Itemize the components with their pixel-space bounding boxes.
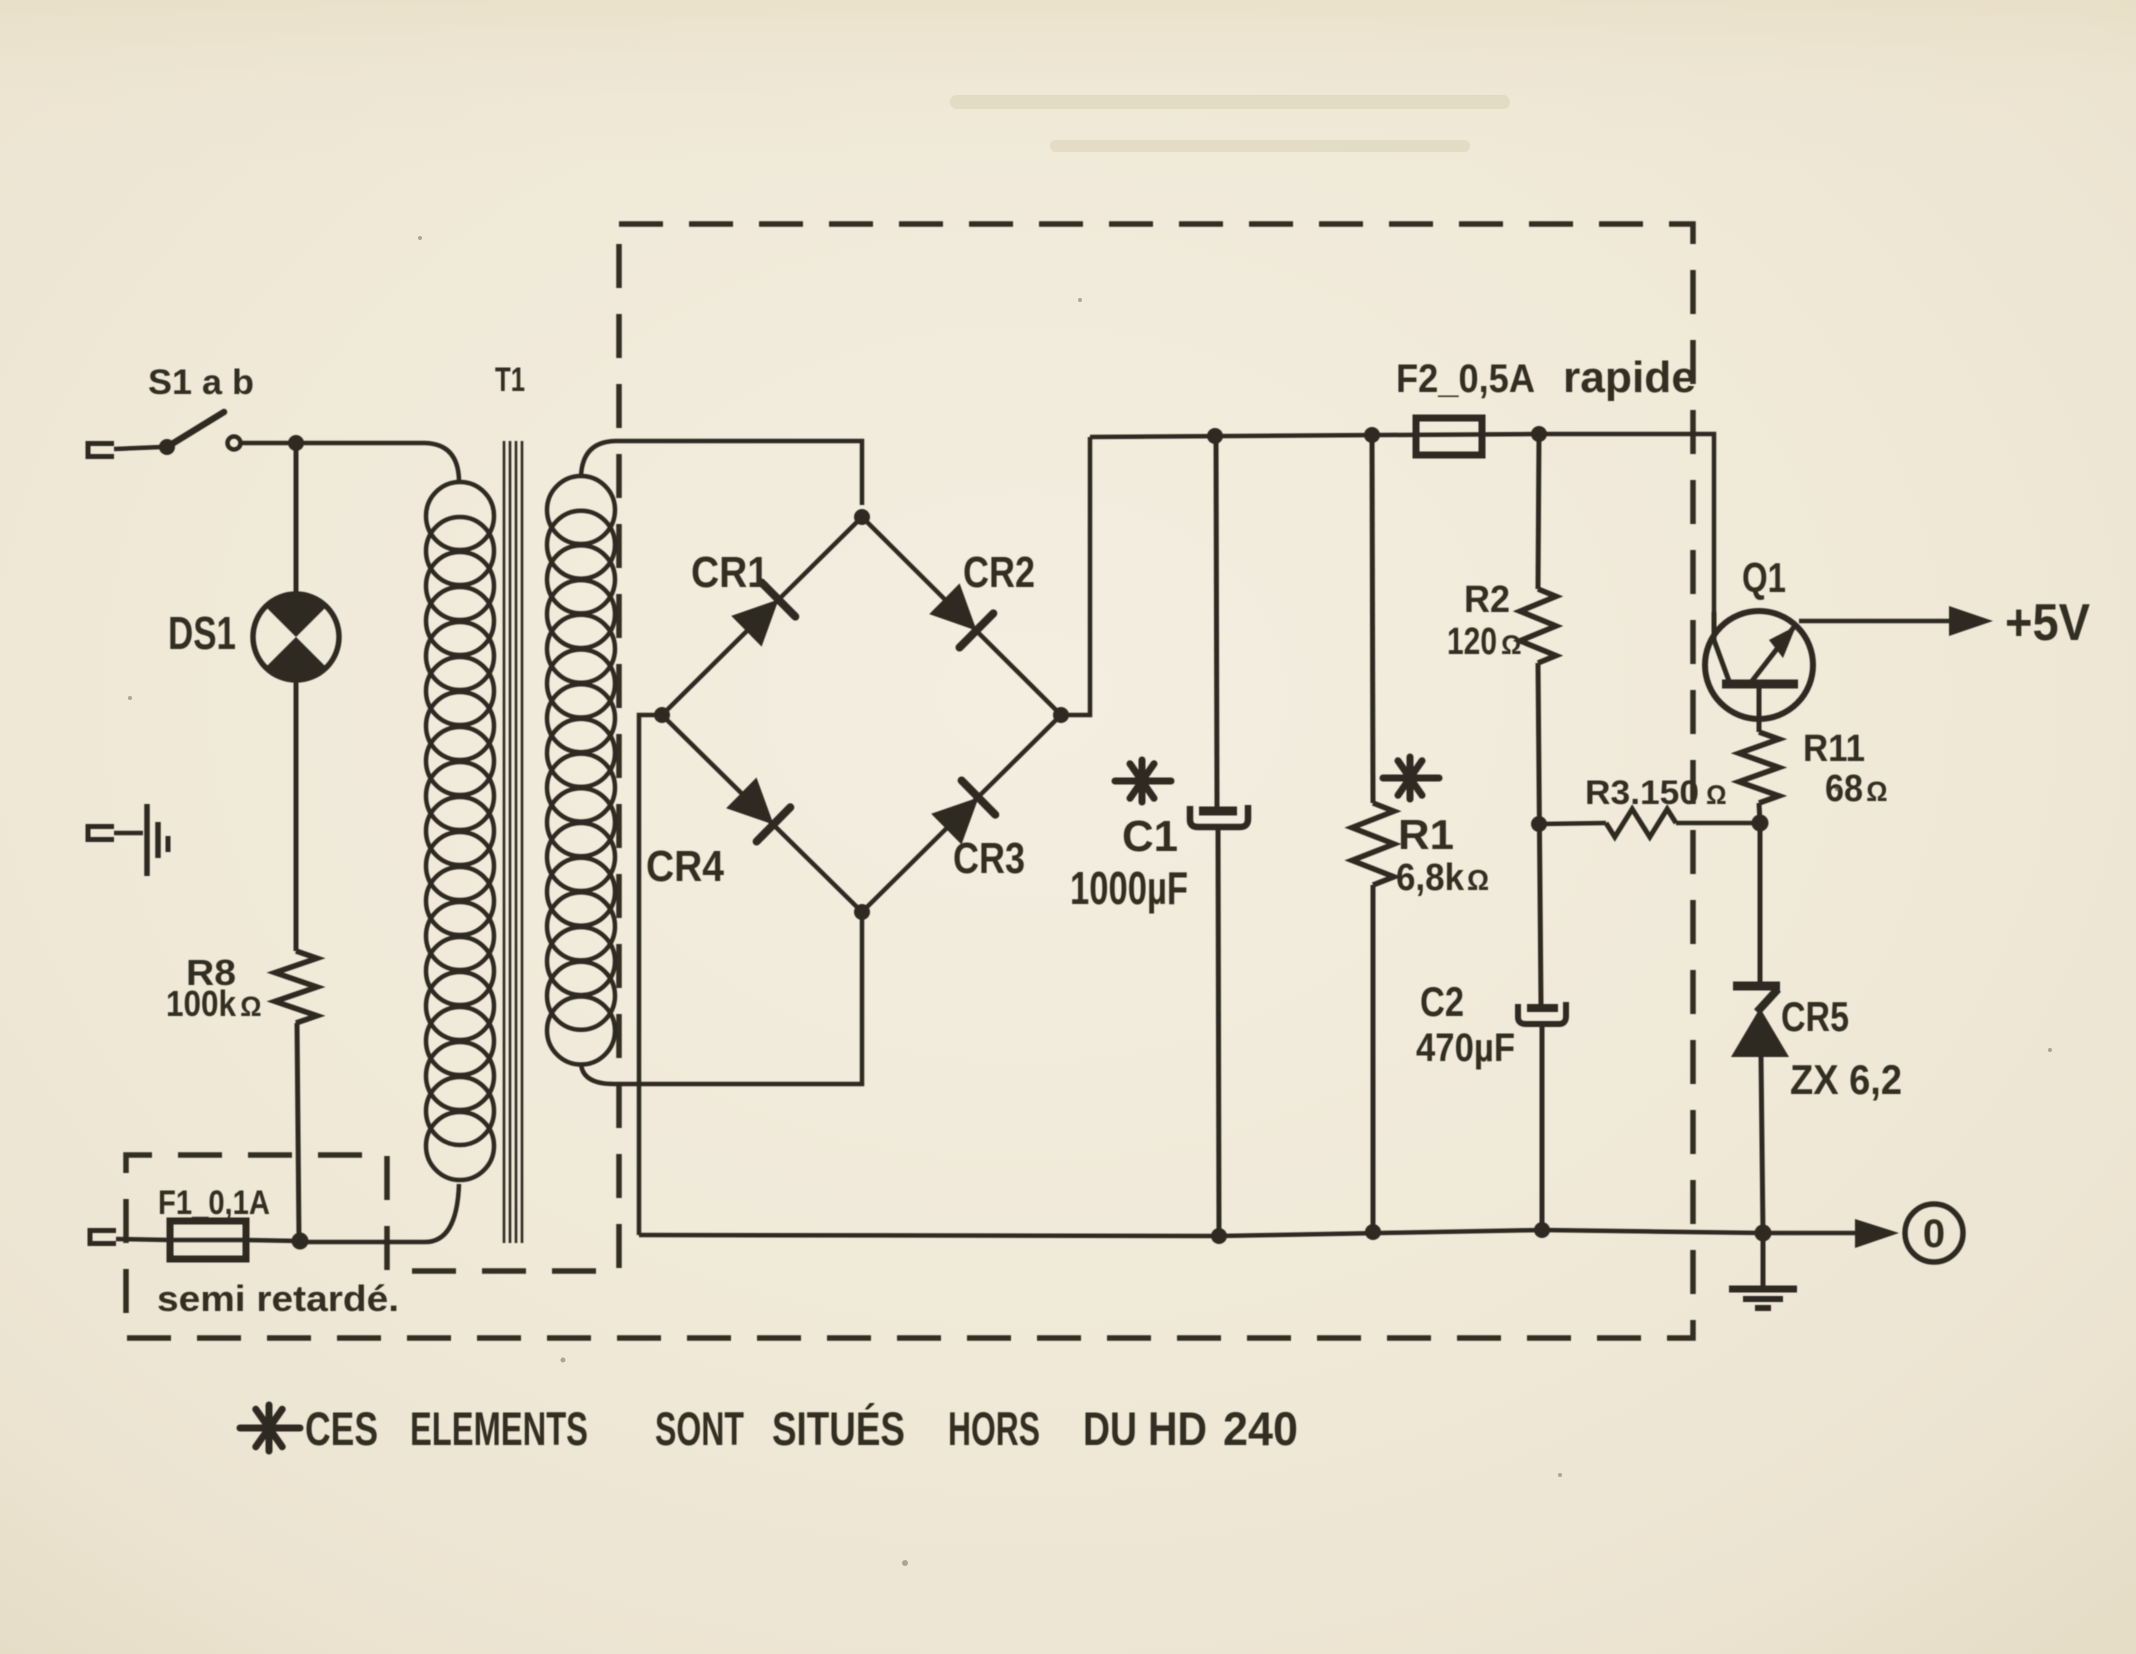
svg-text:6,8k: 6,8k	[1396, 857, 1465, 899]
svg-text:semi retardé.: semi retardé.	[157, 1278, 399, 1319]
wire C2 bottom lead	[1540, 1024, 1545, 1230]
wire R1 bottom lead	[1371, 885, 1376, 1232]
svg-text:Ω: Ω	[240, 991, 262, 1022]
asterisk footnote	[240, 1405, 300, 1451]
earth ground symbol	[1729, 1289, 1797, 1308]
svg-text:CR4: CR4	[646, 842, 724, 891]
node junction at DS1 top	[288, 435, 304, 451]
node R1 bottom	[1365, 1224, 1381, 1240]
svg-text:Ω: Ω	[1866, 776, 1888, 807]
transistor Q1	[1705, 611, 1813, 719]
svg-text:CES: CES	[305, 1402, 378, 1455]
lamp DS1	[253, 594, 339, 680]
node R3 tap	[1531, 816, 1547, 832]
svg-text:120: 120	[1447, 621, 1497, 663]
svg-text:R3.150: R3.150	[1585, 774, 1699, 812]
svg-text:HD: HD	[1148, 1402, 1207, 1455]
svg-text:DU: DU	[1083, 1402, 1137, 1455]
svg-text:C1: C1	[1122, 812, 1178, 861]
asterisk R1 external	[1383, 757, 1439, 799]
zener diode CR5	[1731, 986, 1789, 1057]
svg-text:+5V: +5V	[2005, 594, 2090, 652]
transformer T1 primary winding	[426, 482, 494, 1180]
node C1 bottom	[1211, 1228, 1227, 1244]
wire CR5 to 0V rail	[1761, 1057, 1763, 1233]
wire junction to transformer primary top	[296, 443, 459, 480]
svg-text:Ω: Ω	[1467, 865, 1489, 897]
node 0V junction	[1755, 1225, 1772, 1242]
transformer T1 core	[504, 441, 522, 1243]
svg-text:HORS: HORS	[948, 1402, 1040, 1455]
svg-text:ELEMENTS: ELEMENTS	[410, 1402, 588, 1455]
wire C1 top lead	[1216, 436, 1217, 808]
svg-text:F2_0,5A: F2_0,5A	[1396, 357, 1535, 401]
node bridge right vertex	[1053, 707, 1069, 723]
node R1 top	[1364, 427, 1380, 443]
node base/R3/CR5 junction	[1752, 815, 1769, 832]
switch S1 (lever)	[159, 412, 241, 455]
svg-text:470µF: 470µF	[1416, 1026, 1515, 1070]
node C2 bottom	[1534, 1222, 1550, 1238]
capacitor C1	[1190, 805, 1248, 827]
resistor R11	[1739, 732, 1779, 803]
svg-text:R2: R2	[1464, 579, 1510, 621]
bridge arm L-T with diode CR1	[662, 517, 862, 715]
capacitor C2	[1518, 1002, 1566, 1024]
wire C1 bottom lead	[1218, 827, 1219, 1236]
node bridge left vertex	[654, 707, 670, 723]
wire R2 to C2	[1538, 663, 1541, 1004]
wire junction to transformer primary bottom	[300, 1184, 459, 1242]
svg-text:SONT: SONT	[655, 1402, 744, 1455]
svg-text:R1: R1	[1398, 811, 1454, 858]
svg-text:R11: R11	[1803, 728, 1865, 770]
svg-text:ZX 6,2: ZX 6,2	[1790, 1056, 1902, 1103]
fuse F1	[170, 1221, 246, 1259]
svg-text:rapide: rapide	[1563, 353, 1696, 402]
wire F1 to primary junction	[246, 1240, 299, 1241]
wire Q1 base down	[1757, 688, 1762, 732]
svg-text:F1_0,1A: F1_0,1A	[158, 1184, 270, 1222]
faint bleed-through ghost	[950, 95, 1510, 152]
wire switch to junction	[241, 441, 296, 446]
svg-text:Ω: Ω	[1501, 630, 1522, 660]
svg-text:Ω: Ω	[1706, 780, 1727, 810]
node bridge bottom vertex	[854, 904, 870, 920]
wire bridge right vertex up to +rail	[1061, 437, 1090, 715]
svg-text:Q1: Q1	[1742, 554, 1786, 601]
wire DS1 to R8	[294, 680, 299, 951]
node R2 top	[1531, 426, 1547, 442]
svg-text:CR3: CR3	[953, 834, 1025, 883]
dashed boundary box of HD 240 module	[126, 224, 1693, 1338]
wire to chassis ground	[114, 831, 143, 836]
wire to fuse F1	[116, 1239, 170, 1240]
wire R11 to node	[1759, 803, 1760, 823]
wire junction down to DS1	[294, 443, 299, 595]
ground terminal mid-left	[88, 827, 114, 840]
input terminal top-left	[88, 444, 114, 457]
svg-text:CR5: CR5	[1781, 993, 1849, 1040]
wire terminal to switch	[114, 447, 162, 449]
bridge arm B-R with diode CR3	[862, 715, 1061, 912]
wire secondary bottom to bridge bottom	[581, 916, 862, 1084]
bridge arm T-R with diode CR2	[862, 517, 1061, 715]
svg-text:1000µF: 1000µF	[1070, 862, 1188, 914]
resistor R2	[1520, 589, 1556, 663]
+5V output arrow	[1949, 606, 1993, 636]
svg-text:CR1: CR1	[691, 548, 769, 597]
resistor R8	[275, 951, 317, 1023]
chassis ground symbol (rotated)	[147, 804, 168, 876]
wire R8 to bottom rail	[297, 1023, 299, 1240]
node bridge top vertex	[854, 509, 870, 525]
resistor R1	[1352, 803, 1394, 885]
wire to earth ground	[1761, 1233, 1766, 1288]
wire bridge left vertex down to 0V rail	[639, 715, 662, 1235]
wire R2 top lead	[1538, 434, 1539, 589]
svg-text:T1: T1	[495, 361, 525, 399]
node C1 top	[1207, 428, 1223, 444]
svg-text:240: 240	[1223, 1402, 1298, 1455]
paper specks	[128, 236, 2052, 1566]
bridge arm L-B with diode CR4	[662, 715, 862, 912]
0V output arrow	[1855, 1219, 1899, 1248]
svg-text:DS1: DS1	[168, 607, 236, 659]
resistor R3	[1539, 823, 1606, 824]
fuse F2	[1416, 418, 1482, 455]
svg-text:CR2: CR2	[963, 548, 1035, 597]
svg-text:SITUÉS: SITUÉS	[772, 1402, 905, 1455]
wire emitter to +5V arrow	[1799, 619, 1952, 624]
output terminal 0	[1905, 1204, 1963, 1262]
transformer T1 secondary winding	[547, 476, 615, 1065]
wire secondary top to bridge	[581, 441, 862, 505]
input terminal bottom-left	[90, 1231, 116, 1244]
svg-text:C2: C2	[1420, 978, 1464, 1025]
asterisk C1 external	[1115, 760, 1171, 802]
svg-text:68: 68	[1825, 768, 1863, 810]
svg-text:0: 0	[1923, 1212, 1945, 1256]
node junction bottom of R8 branch	[292, 1233, 309, 1250]
+ rail top	[1090, 434, 1714, 612]
0V bottom rail	[639, 1230, 1862, 1236]
svg-text:S1 a b: S1 a b	[148, 363, 254, 402]
wire R1 top lead	[1372, 435, 1373, 803]
svg-text:100k: 100k	[166, 983, 237, 1024]
wire node down to CR5	[1758, 823, 1763, 985]
